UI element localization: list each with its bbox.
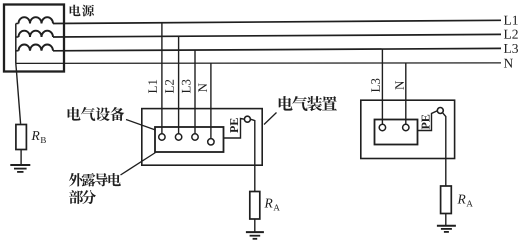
line L1 wire: [53, 20, 501, 23]
PE terminal circle (left): [244, 116, 250, 122]
ground of RB: [10, 165, 30, 172]
rotated label L3 (right): [371, 79, 380, 93]
rotated label L2: [165, 80, 174, 93]
tap wire L1: [161, 23, 163, 134]
wire RB to ground: [20, 150, 22, 165]
PE wire down to RA (left): [250, 119, 254, 191]
label 部分 (part): [69, 190, 96, 204]
ground of RA (right): [437, 226, 456, 232]
power source box (transformer): [4, 5, 64, 72]
label L2: [504, 30, 518, 39]
PE wire down to RA (right): [442, 113, 445, 186]
resistor RA (right): [441, 186, 452, 214]
label 电源 (power source): [70, 5, 94, 17]
resistor RA (left): [250, 192, 260, 220]
tap wire L3 (right): [381, 49, 383, 124]
ground of RA (left): [246, 232, 264, 239]
wire RA to ground (right): [445, 214, 447, 226]
rotated label N (right): [395, 81, 404, 90]
transformer winding W2: [19, 31, 54, 37]
left installation outer box: [142, 109, 262, 166]
PE conductor bracket (left): [224, 119, 245, 139]
label L3: [504, 44, 518, 53]
terminal circle 1 (L1): [159, 134, 165, 140]
line L3 wire: [53, 48, 501, 50]
label RA (left): [264, 199, 279, 211]
terminal circle L3 (right): [379, 124, 385, 130]
label N: [504, 59, 513, 68]
resistor RB: [16, 125, 27, 150]
label 电气装置 (electrical installation): [279, 96, 337, 111]
leader line to equipment: [126, 120, 156, 131]
terminal circle 4 (N): [208, 139, 214, 145]
label 外露导电 (exposed conductive): [69, 173, 121, 187]
line L2 wire: [53, 34, 501, 37]
right equipment inner box: [375, 120, 418, 145]
transformer winding W3: [19, 45, 54, 51]
transformer winding W1: [19, 17, 54, 23]
right installation outer box: [361, 100, 455, 158]
terminal circle 2 (L2): [175, 134, 181, 140]
label RB: [31, 131, 45, 143]
PE terminal circle (right): [437, 108, 443, 114]
rotated label N: [198, 83, 207, 92]
line N wire: [16, 62, 501, 65]
tap wire N: [210, 63, 212, 139]
wire neutral to RB: [16, 63, 21, 123]
terminal circle 3 (L3): [192, 134, 198, 140]
tap wire N (right): [405, 63, 407, 124]
label RA (right): [457, 195, 472, 207]
leader line to exposed part: [121, 153, 156, 176]
PE conductor bracket (right): [418, 111, 438, 131]
rotated label PE (left): [230, 118, 238, 133]
rotated label L3: [182, 80, 191, 94]
rotated label L1: [148, 80, 157, 93]
label 电气设备 (electrical equipment): [68, 107, 125, 121]
label L1: [504, 16, 518, 25]
tap wire L2: [178, 37, 180, 134]
leader line to installation: [264, 113, 277, 125]
neutral star-point bus: [15, 24, 17, 64]
left equipment inner box: [155, 127, 224, 152]
tap wire L3: [194, 50, 196, 134]
rotated label PE (right): [422, 115, 430, 130]
terminal circle N (right): [403, 124, 409, 130]
wire RA to ground (left): [254, 219, 256, 232]
